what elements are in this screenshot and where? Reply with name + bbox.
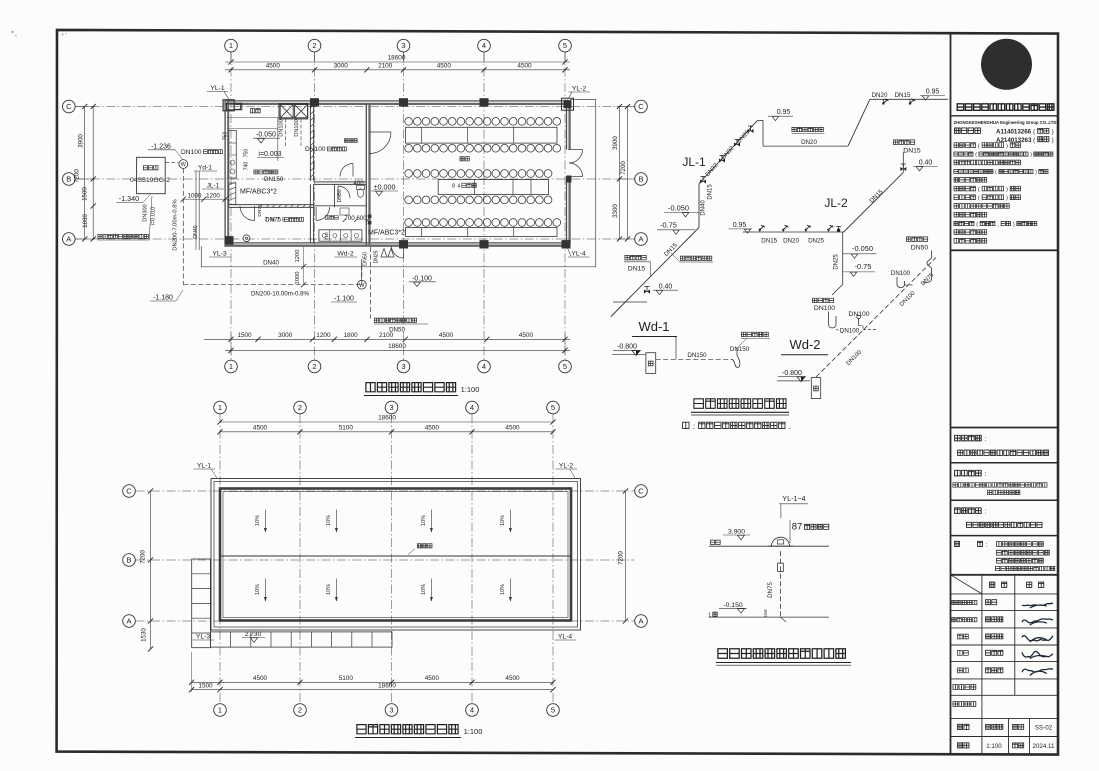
svg-text:-0.050: -0.050 <box>256 132 276 139</box>
svg-text:7200: 7200 <box>74 169 81 183</box>
svg-text:YL-3: YL-3 <box>212 251 227 258</box>
svg-text:DN40: DN40 <box>193 225 199 238</box>
svg-text:1200: 1200 <box>206 193 220 200</box>
indoor system title <box>694 399 704 409</box>
toilet block walls <box>314 181 367 183</box>
Wd-1 cleanout box <box>646 353 656 374</box>
top-right corner column <box>562 98 574 110</box>
svg-text:ZHONGKESHENGHUA Engineering Gr: ZHONGKESHENGHUA Engineering Group CO.,LT… <box>954 120 1057 125</box>
svg-text:0.40: 0.40 <box>659 283 673 290</box>
roof title <box>357 725 366 734</box>
eaves/canopy outline around building <box>201 99 595 266</box>
svg-text:(: ( <box>978 144 980 150</box>
svg-text:YL-4: YL-4 <box>558 634 573 641</box>
svg-text:18600: 18600 <box>388 343 406 350</box>
svg-text:7200: 7200 <box>140 550 147 564</box>
svg-text:): ) <box>1052 137 1054 144</box>
svg-text:10%: 10% <box>326 515 332 526</box>
svg-text:600: 600 <box>356 215 367 222</box>
columns (black) along walls <box>310 98 319 106</box>
wall pier dark squares <box>368 215 372 219</box>
floor plan: grid circles top <box>225 39 238 52</box>
svg-text:DN50: DN50 <box>911 244 929 251</box>
svg-text::: : <box>985 509 987 516</box>
kitchen door opening arc <box>240 206 255 221</box>
svg-text:B: B <box>638 175 643 184</box>
toilet fixtures <box>357 185 365 189</box>
svg-text:0.95: 0.95 <box>777 109 791 116</box>
corridor wall (dining left) with door <box>365 104 367 246</box>
svg-text:Wd-1: Wd-1 <box>638 319 669 334</box>
svg-text:5100: 5100 <box>339 675 354 682</box>
roof plan left grid circles <box>123 485 136 498</box>
svg-text:4: 4 <box>482 362 486 371</box>
company name 中科盛华工程集团有限公司 <box>957 104 964 111</box>
JL-1 rise diagonal right <box>848 99 870 146</box>
洗手层内敷设 leader right <box>680 256 684 260</box>
svg-text:Wd-2: Wd-2 <box>337 251 353 258</box>
svg-text:(: ( <box>978 196 980 202</box>
svg-text:DN15: DN15 <box>903 148 921 155</box>
kitchen counters left <box>229 131 237 179</box>
svg-text:DN100: DN100 <box>840 328 860 335</box>
Wd-2 riser leader line <box>361 259 363 281</box>
wash trough bottom <box>319 230 362 241</box>
floor plan: grid circles bottom <box>225 360 238 373</box>
svg-text:DN25: DN25 <box>374 250 380 263</box>
entrance door bottom (grid3) <box>392 246 404 258</box>
svg-text:2024.11: 2024.11 <box>1033 743 1055 750</box>
svg-text:DN150: DN150 <box>730 346 750 353</box>
svg-text:10%: 10% <box>421 515 427 526</box>
svg-text:3: 3 <box>401 41 405 50</box>
svg-text:YL-1: YL-1 <box>210 85 225 92</box>
svg-text:1200: 1200 <box>316 332 331 339</box>
svg-text:DN200-10.00m-0.8%: DN200-10.00m-0.8% <box>251 291 310 298</box>
JL-1 valve on diagonal <box>644 290 650 294</box>
svg-text:DN300: DN300 <box>143 204 149 221</box>
svg-text:): ) <box>1052 129 1054 136</box>
svg-text:-0.150: -0.150 <box>723 602 742 609</box>
svg-text:-0.75: -0.75 <box>660 221 677 230</box>
svg-text:SS-02: SS-02 <box>1035 725 1053 732</box>
scan specks top-left <box>11 31 13 33</box>
company logo stamp circle <box>981 39 1032 90</box>
svg-text:750: 750 <box>223 132 229 141</box>
floor plan: top dimension segments <box>225 69 570 71</box>
svg-text:1530: 1530 <box>141 628 148 642</box>
floor plan: grid circles right C B A <box>635 100 648 113</box>
svg-text:): ) <box>1006 144 1008 150</box>
svg-text:10%: 10% <box>421 584 427 595</box>
floor plan: grid horizontals (dash-dot) <box>75 106 634 108</box>
svg-text:-0.050: -0.050 <box>852 244 873 253</box>
子项名称 section <box>955 508 961 514</box>
JL-1 接洗手盆 DN15 <box>625 255 630 260</box>
svg-text:3.900: 3.900 <box>728 529 745 536</box>
svg-text:-1.236: -1.236 <box>151 143 171 150</box>
svg-text:Yd-1: Yd-1 <box>198 165 212 172</box>
stoves (boxed X) <box>279 104 308 119</box>
svg-text:150: 150 <box>763 609 769 617</box>
drain traps cluster right <box>906 237 911 242</box>
svg-text:-0.800: -0.800 <box>617 344 637 351</box>
svg-text:4500: 4500 <box>437 63 452 70</box>
roof right dim <box>625 491 627 621</box>
svg-text:DN50: DN50 <box>389 327 405 334</box>
floor plan: grid verticals (dash-dot) <box>230 52 232 360</box>
svg-text:DN40: DN40 <box>701 200 707 216</box>
svg-text:4: 4 <box>482 41 486 50</box>
建设单位 section <box>955 435 961 441</box>
toilet door arc <box>340 164 353 177</box>
svg-text:DN15: DN15 <box>708 184 714 200</box>
svg-text:.: . <box>789 422 791 431</box>
svg-text:10%: 10% <box>326 584 332 595</box>
svg-text:7200: 7200 <box>620 161 627 175</box>
svg-text:C: C <box>66 102 72 111</box>
svg-text:MF/ABC3*2: MF/ABC3*2 <box>368 230 405 237</box>
svg-text:JL-1: JL-1 <box>682 155 706 169</box>
svg-text:5: 5 <box>563 362 567 371</box>
main dashed diagonal to Wd-2 <box>816 258 936 378</box>
svg-text:87: 87 <box>792 522 803 533</box>
svg-text:3000: 3000 <box>334 63 349 70</box>
JL-1 valve at top of riser <box>700 180 706 184</box>
roof plan grid circles bottom <box>214 704 227 717</box>
svg-text:DN200-7.00m-0.8%: DN200-7.00m-0.8% <box>173 199 179 250</box>
svg-text:5100: 5100 <box>339 425 354 432</box>
svg-text:i=0.003: i=0.003 <box>258 151 281 158</box>
svg-text:DN15: DN15 <box>761 238 777 245</box>
svg-text:0.95: 0.95 <box>733 222 747 229</box>
svg-text:0.95: 0.95 <box>926 89 940 96</box>
building walls: left wall <box>224 101 226 246</box>
floor plan: bottom dim chain <box>204 338 570 340</box>
svg-text:10%: 10% <box>500 515 506 526</box>
empty box <box>951 427 1059 429</box>
floor plan: extension lines bottom <box>230 334 232 355</box>
cert section bottom border <box>951 249 1059 251</box>
svg-text:710: 710 <box>324 232 330 240</box>
svg-text:): ) <box>1006 187 1008 193</box>
left wall pier hatched <box>229 183 236 205</box>
svg-text:7200: 7200 <box>618 551 625 565</box>
JL-1 vertical riser <box>698 184 700 228</box>
svg-text:4500: 4500 <box>266 63 281 70</box>
svg-text:3: 3 <box>389 403 393 412</box>
svg-text:1: 1 <box>218 403 222 412</box>
svg-text:4500: 4500 <box>439 332 454 339</box>
svg-text:-1.340: -1.340 <box>119 194 139 203</box>
dining chairs and tables <box>405 118 413 126</box>
svg-text:1500: 1500 <box>198 683 213 690</box>
svg-text:3000: 3000 <box>278 332 293 339</box>
svg-text:3300: 3300 <box>612 204 619 218</box>
floor plan: grid circles left C B A <box>63 100 76 113</box>
工程名称 section <box>955 470 961 476</box>
svg-text:DN100: DN100 <box>891 270 911 277</box>
kitchen floor drain <box>243 235 250 242</box>
ridge line 分水线 <box>220 555 571 557</box>
JL-1 drop + DN20 run <box>762 120 764 146</box>
water supply entry <box>370 247 372 319</box>
svg-text:DN25: DN25 <box>808 238 824 245</box>
svg-text:C: C <box>126 487 132 496</box>
svg-text:(: ( <box>978 187 980 193</box>
接盥洗槽 DN100 trap <box>812 298 817 303</box>
roof plan grid circles top <box>214 401 227 414</box>
JL-1 top step + 0.95 <box>758 119 764 121</box>
svg-text:5: 5 <box>563 41 567 50</box>
svg-text:1: 1 <box>708 613 711 619</box>
washroom lower door arc <box>316 207 330 221</box>
svg-text:DN75: DN75 <box>257 204 263 217</box>
svg-text:1500: 1500 <box>82 187 89 201</box>
JL-1 far top horizontal <box>870 98 948 100</box>
svg-text:1:100: 1:100 <box>461 385 480 394</box>
svg-text:2100: 2100 <box>378 63 393 70</box>
svg-text:18600: 18600 <box>388 55 406 62</box>
svg-text:750: 750 <box>244 149 250 158</box>
svg-text:1000: 1000 <box>188 193 202 200</box>
svg-text:i=0.010: i=0.010 <box>151 207 157 226</box>
svg-text:C: C <box>638 102 644 111</box>
svg-text::: : <box>693 422 695 431</box>
JL-1 lower diagonal pipe <box>611 228 699 317</box>
JL-2 drop vertical down <box>842 232 844 285</box>
svg-text:): ) <box>1013 222 1015 228</box>
svg-text:DN40: DN40 <box>263 259 279 266</box>
svg-text:5: 5 <box>551 706 555 715</box>
Wd-1 trap and floor drain <box>731 348 740 368</box>
svg-text:2: 2 <box>312 41 316 50</box>
svg-text:YL-1: YL-1 <box>197 463 212 470</box>
roof bottom dims <box>192 681 554 683</box>
table band 3 <box>406 228 558 237</box>
dining hall double door <box>568 149 583 151</box>
title block left border <box>950 33 952 753</box>
svg-text:): ) <box>1006 196 1008 202</box>
svg-text:DN75: DN75 <box>265 217 281 224</box>
svg-text:740: 740 <box>244 162 250 171</box>
svg-text:JL-1: JL-1 <box>207 183 220 190</box>
svg-text:B: B <box>66 175 71 184</box>
svg-text:JL-2: JL-2 <box>824 196 848 210</box>
svg-text:DN20: DN20 <box>801 139 817 146</box>
svg-text:4500: 4500 <box>253 675 268 682</box>
svg-text:(: ( <box>976 222 978 228</box>
svg-text:4500: 4500 <box>425 425 440 432</box>
svg-text:DN15: DN15 <box>628 266 646 273</box>
svg-text:4500: 4500 <box>505 425 520 432</box>
floor plan: top dimension total 18600 <box>225 61 570 63</box>
svg-text:8: 8 <box>452 184 455 190</box>
building walls: right wall with door opening <box>566 104 568 150</box>
svg-text:18600: 18600 <box>378 683 396 690</box>
header diagonal <box>951 575 982 594</box>
svg-text:DN25: DN25 <box>834 254 840 270</box>
svg-text:DN100: DN100 <box>279 119 285 136</box>
rain diagram title <box>718 649 728 659</box>
svg-text:18600: 18600 <box>378 415 396 422</box>
svg-text:A: A <box>66 235 71 244</box>
roof plan grid horizontals dashed <box>136 490 635 492</box>
svg-text:B: B <box>126 556 131 565</box>
kitchen horizontal wall with hatch <box>228 204 313 206</box>
svg-text:2: 2 <box>298 706 302 715</box>
svg-text:10%: 10% <box>255 515 261 526</box>
svg-text:DN20: DN20 <box>872 92 888 99</box>
left ladder block <box>192 559 211 648</box>
svg-text:DN150: DN150 <box>687 352 707 359</box>
kitchen inner wall hatched <box>309 104 311 181</box>
svg-text:3: 3 <box>389 706 393 715</box>
right wall column marker at grid B <box>566 176 571 183</box>
JL-2 bottom horizontal <box>743 231 844 233</box>
rain riser dashed <box>780 551 782 617</box>
svg-text:YL-4: YL-4 <box>571 251 586 258</box>
table band 1 <box>406 127 558 143</box>
outside: grease trap box 隔油池 <box>137 157 166 193</box>
svg-text:±0.000: ±0.000 <box>374 182 396 191</box>
svg-text:A: A <box>638 235 643 244</box>
svg-text::: : <box>985 471 987 478</box>
svg-text:10%: 10% <box>255 584 261 595</box>
svg-text:-1.180: -1.180 <box>153 295 173 302</box>
svg-text:2.730: 2.730 <box>245 631 262 638</box>
svg-text:1800: 1800 <box>82 214 89 228</box>
roof plan right grid circles <box>635 485 648 498</box>
building walls: top wall <box>225 100 571 102</box>
note line <box>683 422 689 428</box>
signature table <box>951 574 1059 576</box>
JL-2 diagonal up right <box>844 172 904 232</box>
svg-text:-0.050: -0.050 <box>668 203 689 212</box>
svg-text:1800: 1800 <box>343 332 358 339</box>
svg-text:1500: 1500 <box>237 332 252 339</box>
svg-text:1:100: 1:100 <box>464 727 483 736</box>
Wd-1 dashed run DN150 <box>656 358 731 360</box>
svg-text:4500: 4500 <box>517 63 532 70</box>
svg-text:4: 4 <box>470 403 474 412</box>
toilet-left wall extension <box>309 184 311 243</box>
svg-text:4500: 4500 <box>505 675 520 682</box>
svg-text:4: 4 <box>470 706 474 715</box>
outdoor sewer dashed lines <box>182 168 184 284</box>
svg-text:W: W <box>181 162 187 168</box>
svg-text:Wd-2: Wd-2 <box>789 337 820 352</box>
kitchen counter lines <box>227 117 278 119</box>
svg-text:1:100: 1:100 <box>986 743 1002 750</box>
svg-text:DN150: DN150 <box>264 176 284 183</box>
svg-text:4500: 4500 <box>519 332 534 339</box>
corridor door arc to dining <box>370 131 392 133</box>
roof left dims <box>150 491 152 649</box>
svg-text:W: W <box>359 283 365 289</box>
svg-text:MF/ABC3*2: MF/ABC3*2 <box>240 189 277 196</box>
svg-text:1: 1 <box>218 706 222 715</box>
svg-text:DN100: DN100 <box>181 149 202 156</box>
svg-text:4500: 4500 <box>253 425 268 432</box>
svg-text:C: C <box>638 487 644 496</box>
svg-text:0.40: 0.40 <box>919 159 933 166</box>
svg-text:10%: 10% <box>500 584 506 595</box>
svg-text:3: 3 <box>401 362 405 371</box>
svg-text:DN20: DN20 <box>783 238 799 245</box>
svg-text:400: 400 <box>353 180 364 187</box>
roof plan grid verticals dashed <box>219 414 221 703</box>
svg-text:YL-2: YL-2 <box>572 86 587 93</box>
Wd-2 cleanout box <box>811 378 820 399</box>
svg-text:A: A <box>126 617 131 626</box>
svg-text:DN100: DN100 <box>294 119 300 136</box>
svg-text::: : <box>985 436 987 443</box>
svg-text:-0.75: -0.75 <box>855 262 872 271</box>
floor plan title <box>366 383 375 392</box>
YL-1 rain leader box top-left corner <box>223 100 234 111</box>
svg-text:4500: 4500 <box>425 675 440 682</box>
W circle 2 <box>357 280 366 289</box>
svg-text:700: 700 <box>344 215 355 222</box>
svg-text:2: 2 <box>312 362 316 371</box>
svg-text:1: 1 <box>229 362 233 371</box>
svg-text:04S519GG-2: 04S519GG-2 <box>130 177 170 184</box>
svg-text:3900: 3900 <box>612 136 619 150</box>
svg-text:-1.100: -1.100 <box>334 296 354 303</box>
svg-text:5: 5 <box>551 403 555 412</box>
svg-text:YL-1~4: YL-1~4 <box>782 494 805 503</box>
signatures (handwritten) <box>1022 603 1053 608</box>
certification list <box>954 143 959 148</box>
JL-2 top vertical with valve <box>902 152 904 172</box>
svg-text:DN100: DN100 <box>848 311 869 318</box>
svg-text:2: 2 <box>298 403 302 412</box>
svg-text:DN100: DN100 <box>814 305 835 312</box>
svg-text:DN50: DN50 <box>363 252 369 266</box>
svg-text::: : <box>986 542 988 549</box>
floor plan: left dimension lines <box>84 107 86 240</box>
svg-text:): ) <box>1030 152 1032 158</box>
svg-text:1: 1 <box>229 41 233 50</box>
svg-text:A114013266: A114013266 <box>996 129 1032 136</box>
table band 2 (84个座位) <box>438 180 548 195</box>
roof level 3.900 <box>710 540 714 544</box>
svg-text:1000: 1000 <box>295 272 301 285</box>
svg-text:3900: 3900 <box>78 134 85 148</box>
svg-text:DN100: DN100 <box>305 146 326 153</box>
W circle 1 <box>179 160 188 169</box>
bottom canopy cells <box>210 632 392 647</box>
svg-text:4: 4 <box>457 184 460 190</box>
svg-text:A: A <box>638 617 643 626</box>
图名 section <box>955 541 960 546</box>
floor plan: right dimension lines <box>619 107 621 240</box>
svg-text:DN75: DN75 <box>767 582 774 598</box>
cert number line <box>955 128 961 133</box>
sewer note bottom left <box>98 234 102 238</box>
JL-1 base floor line <box>613 301 647 303</box>
rain gutter dome <box>772 537 790 546</box>
svg-text:DN15: DN15 <box>895 92 911 99</box>
svg-text:DN50: DN50 <box>337 189 343 202</box>
svg-text:-0.800: -0.800 <box>782 370 802 377</box>
svg-text:(: ( <box>995 170 997 176</box>
svg-text:(: ( <box>975 152 977 158</box>
JL-1 upper diagonal <box>699 120 758 183</box>
entrance triangles <box>381 249 387 258</box>
svg-text:1200: 1200 <box>295 250 301 263</box>
